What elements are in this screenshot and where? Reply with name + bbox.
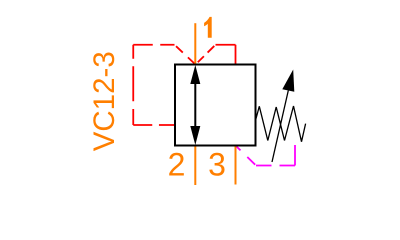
svg-text:3: 3 xyxy=(208,147,226,183)
svg-text:2: 2 xyxy=(168,147,186,183)
svg-text:VC12-3: VC12-3 xyxy=(88,51,121,151)
